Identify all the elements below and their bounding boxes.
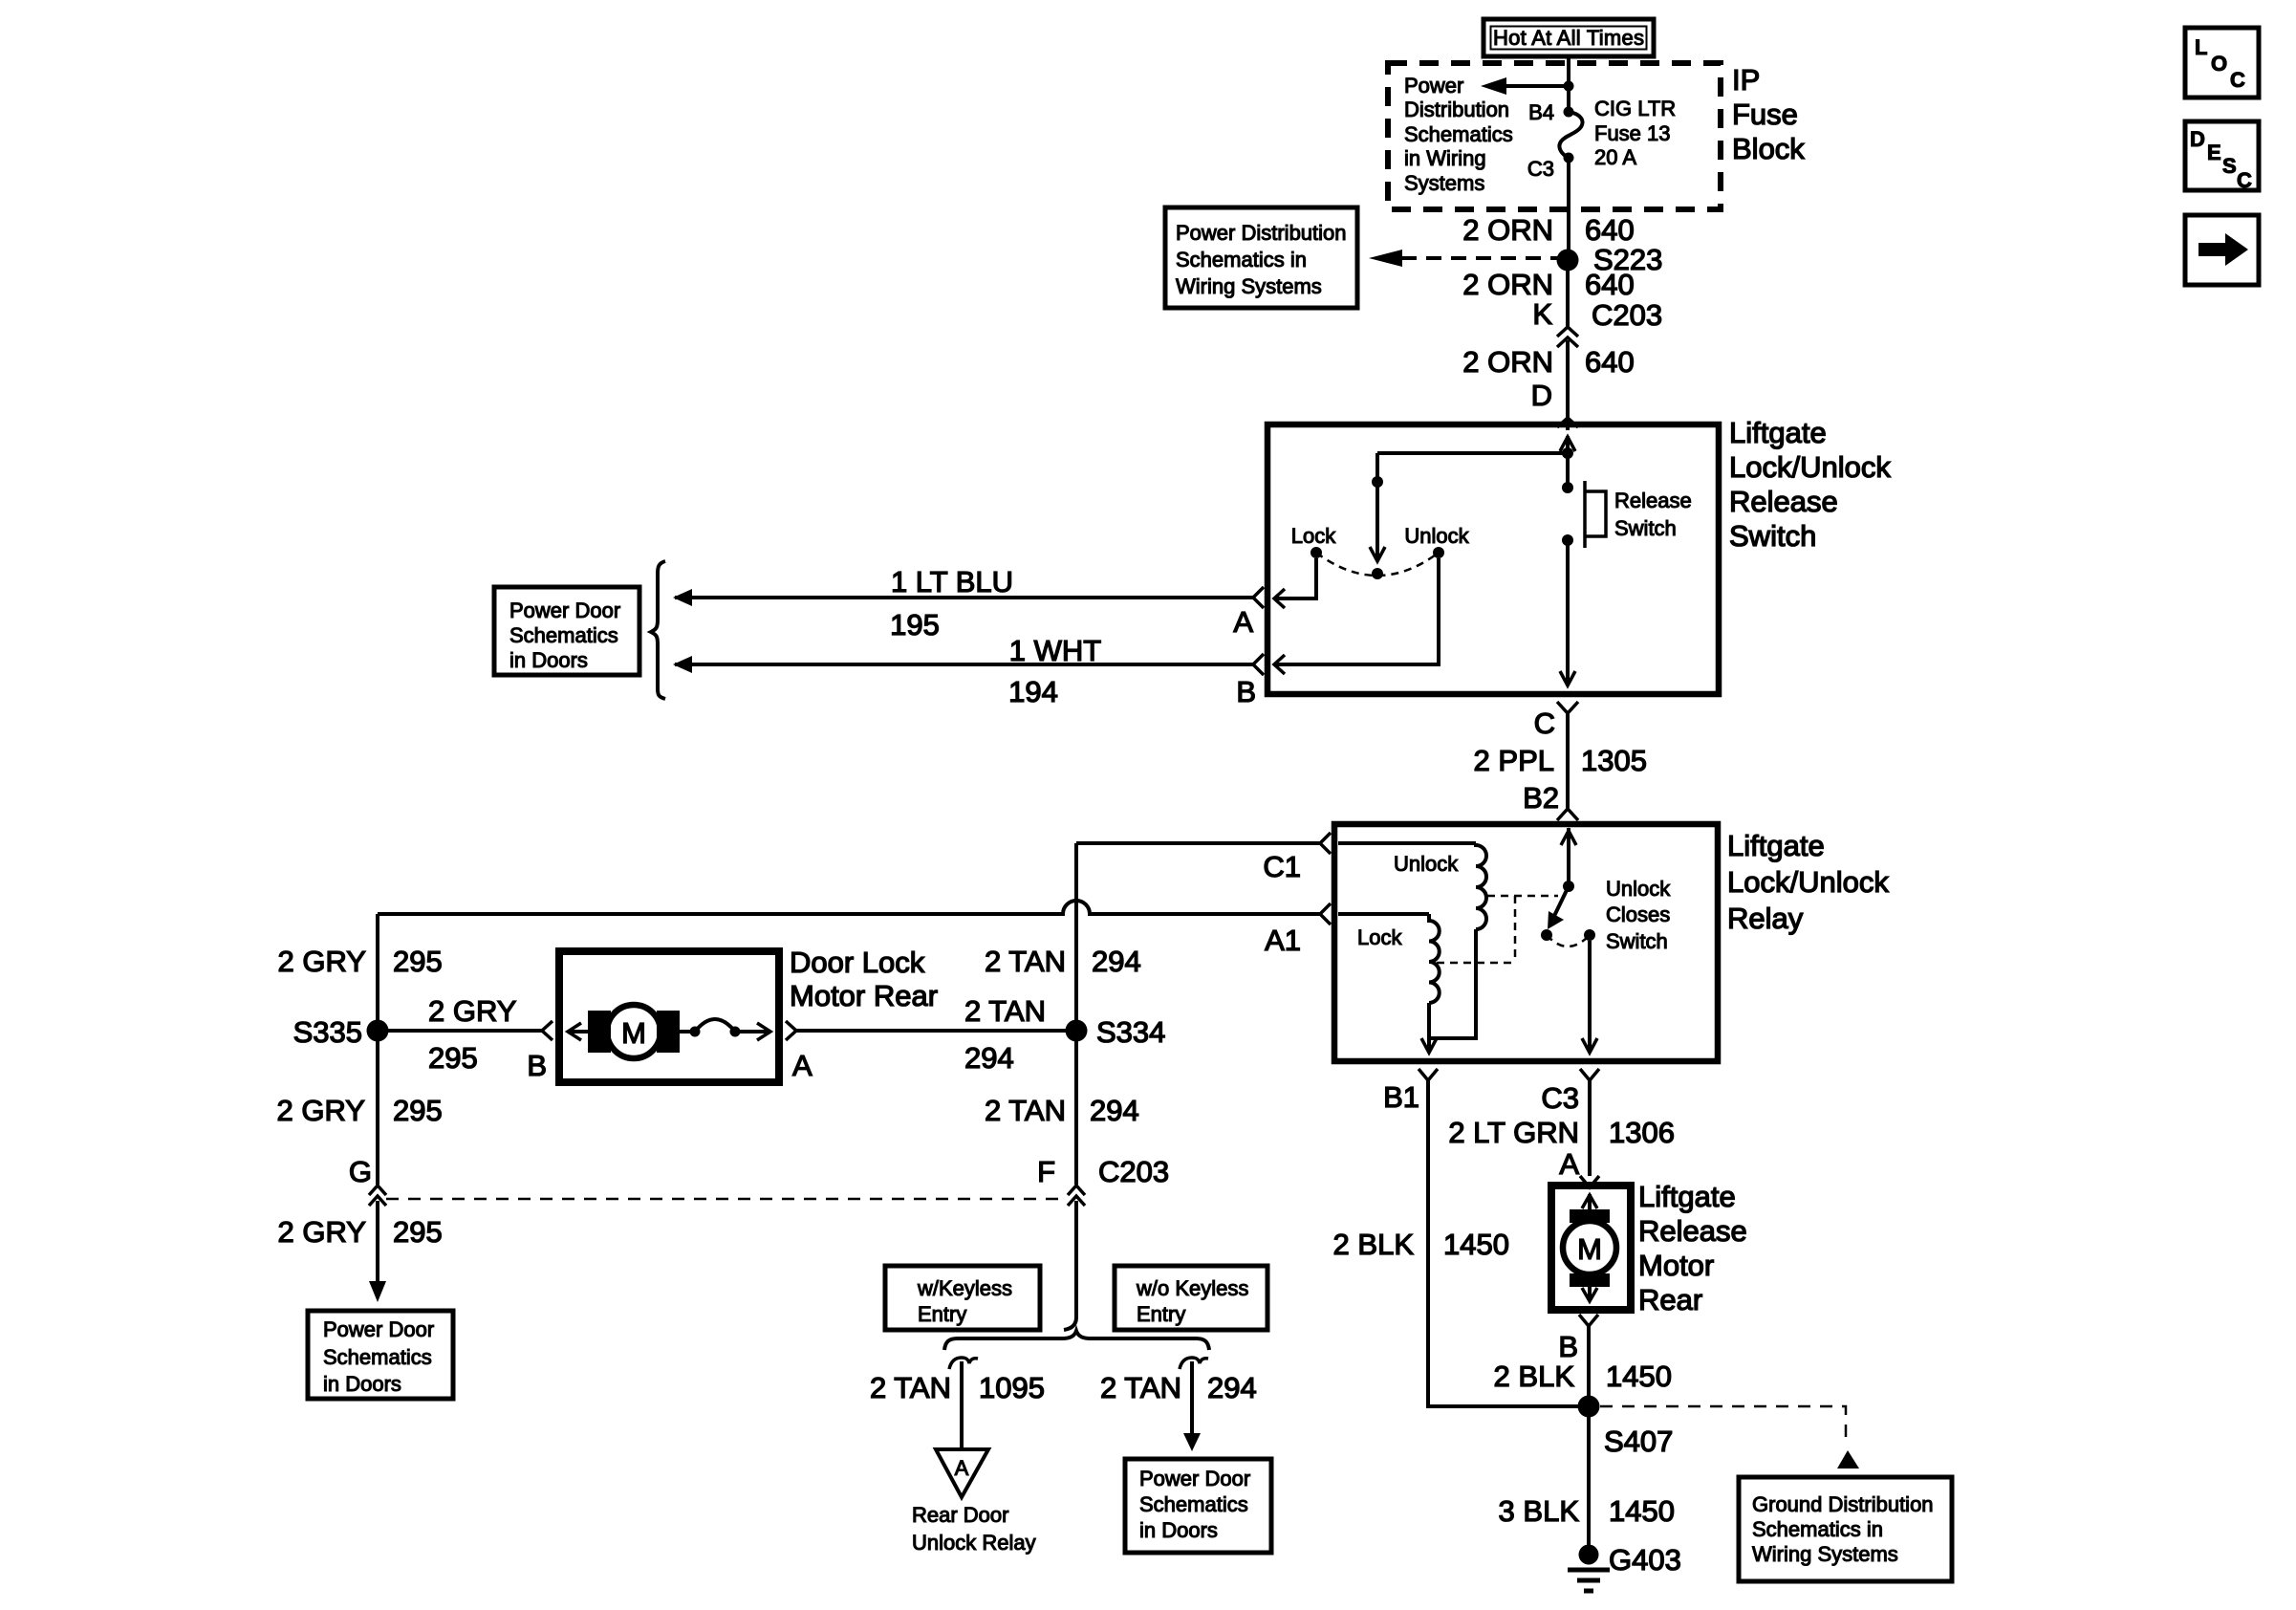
wire label 2 GRY 295 below G: [278, 1215, 443, 1249]
wire label 2 TAN 294 above S334: [985, 945, 1141, 978]
wire feed to lock/unlock common: [1377, 451, 1568, 455]
squiggle left option branch: [949, 1358, 978, 1369]
svg-text:Schematics: Schematics: [1139, 1492, 1248, 1516]
svg-text:640: 640: [1585, 213, 1635, 247]
dashed mechanical linkage: [1437, 896, 1558, 963]
nav icon arrow: [2185, 215, 2259, 285]
wire S334 riser: [1074, 843, 1078, 1185]
svg-text:G: G: [349, 1155, 372, 1188]
node common terminal: [1372, 453, 1383, 488]
wire label 3 BLK 1450: [1499, 1494, 1675, 1528]
svg-text:Liftgate: Liftgate: [1727, 829, 1825, 862]
svg-text:Unlock: Unlock: [1606, 877, 1671, 901]
svg-text:Fuse 13: Fuse 13: [1594, 121, 1671, 145]
svg-text:2 TAN: 2 TAN: [1100, 1371, 1181, 1404]
wire 2 PPL 1305 switch to relay: [1566, 713, 1570, 809]
reference box Power Door Schematics in Doors lower left: [308, 1311, 453, 1399]
svg-text:2 TAN: 2 TAN: [985, 1094, 1066, 1127]
node lock contact: [1310, 547, 1322, 558]
label Rear Door Unlock Relay: [912, 1503, 1036, 1555]
svg-text:C203: C203: [1592, 298, 1662, 332]
svg-text:194: 194: [1008, 675, 1058, 708]
svg-text:Power Distribution: Power Distribution: [1176, 221, 1347, 245]
svg-text:Entry: Entry: [1137, 1302, 1185, 1326]
connector chevron pin B: [1253, 654, 1264, 675]
svg-text:C203: C203: [1098, 1155, 1169, 1188]
node release upper contact: [1562, 482, 1573, 493]
svg-text:S334: S334: [1096, 1015, 1165, 1049]
wire A1 branch with hop over S334 riser: [378, 901, 1320, 914]
connector chevron pin C: [1557, 702, 1578, 713]
svg-text:Schematics: Schematics: [1404, 122, 1513, 146]
svg-text:D: D: [1531, 379, 1552, 412]
reference box Power Door Schematics in Doors lower right: [1125, 1459, 1271, 1553]
motor M door lock rear: [568, 1005, 770, 1058]
svg-text:Motor: Motor: [1638, 1249, 1714, 1282]
connector chevron pin B1: [1419, 1069, 1438, 1080]
svg-text:195: 195: [890, 608, 940, 642]
label Liftgate Lock/Unlock Release Switch: [1729, 416, 1891, 553]
wire S335 to door lock motor pin B: [378, 1029, 542, 1033]
connector chevron pin A: [1253, 587, 1264, 608]
svg-text:Hot At All Times: Hot At All Times: [1493, 26, 1644, 50]
connector chevron motor pin B: [1579, 1315, 1598, 1326]
svg-text:in Doors: in Doors: [509, 648, 588, 672]
svg-text:2 TAN: 2 TAN: [964, 994, 1046, 1028]
connector chevron motor pin A: [786, 1021, 796, 1040]
node B4 terminal: [1564, 107, 1574, 118]
wire dashed S407 to ground distribution: [1600, 1406, 1859, 1469]
svg-text:Power Door: Power Door: [1139, 1467, 1250, 1490]
option box w/Keyless Entry: [885, 1266, 1040, 1330]
node relay contact right: [1584, 929, 1595, 941]
svg-text:Distribution: Distribution: [1404, 98, 1509, 121]
wire label 2 GRY 295 horizontal: [428, 994, 516, 1075]
svg-text:B2: B2: [1523, 781, 1559, 815]
svg-text:A1: A1: [1265, 924, 1301, 957]
svg-text:Release: Release: [1614, 489, 1692, 512]
svg-text:1450: 1450: [1606, 1360, 1672, 1393]
svg-text:Lock: Lock: [1357, 925, 1402, 949]
svg-text:Switch: Switch: [1729, 519, 1816, 553]
svg-text:295: 295: [428, 1041, 478, 1075]
svg-text:G403: G403: [1609, 1543, 1681, 1577]
svg-text:1450: 1450: [1609, 1494, 1675, 1528]
svg-text:IP: IP: [1732, 63, 1760, 97]
svg-text:B1: B1: [1383, 1080, 1419, 1114]
svg-text:D: D: [2190, 127, 2205, 151]
svg-text:640: 640: [1585, 268, 1635, 301]
brace grouping door wires: [651, 561, 665, 699]
svg-text:Relay: Relay: [1727, 902, 1804, 935]
svg-text:E: E: [2207, 141, 2221, 164]
svg-text:295: 295: [393, 945, 443, 978]
node junction to power distribution arrow: [1564, 81, 1574, 92]
svg-text:Block: Block: [1732, 132, 1805, 165]
connector chevron motor pin B: [542, 1021, 552, 1040]
wire arrow to power distribution schematics: [1481, 77, 1569, 95]
reference box Ground Distribution Schematics in Wiring Systems: [1739, 1477, 1952, 1581]
value label CIG LTR Fuse 13 20 A: [1594, 97, 1676, 169]
svg-text:295: 295: [393, 1094, 443, 1127]
wire lock contact to pin A: [1274, 558, 1316, 608]
svg-text:A: A: [1559, 1147, 1579, 1181]
wire 2 TAN 1095 to rear door unlock relay: [960, 1361, 964, 1449]
connector chevron pin C1: [1320, 833, 1331, 854]
svg-text:Release: Release: [1638, 1214, 1747, 1248]
wire S335 riser: [376, 914, 379, 1185]
wire C1 branch from S334 riser: [1076, 841, 1320, 845]
svg-text:2 ORN: 2 ORN: [1462, 268, 1553, 301]
svg-text:Lock: Lock: [1291, 524, 1336, 548]
svg-text:Unlock Relay: Unlock Relay: [912, 1531, 1036, 1555]
svg-text:Schematics in: Schematics in: [1752, 1517, 1883, 1541]
svg-text:Lock/Unlock: Lock/Unlock: [1729, 450, 1891, 484]
wire lock coil feed from A1: [1338, 912, 1429, 916]
node splice S223: [1557, 250, 1579, 272]
wire label 2 ORN 640: [1462, 268, 1634, 301]
svg-text:in Wiring: in Wiring: [1404, 146, 1486, 170]
svg-text:S407: S407: [1604, 1425, 1673, 1458]
wire 2 BLK 1450 from B1: [1428, 1080, 1580, 1406]
svg-text:1306: 1306: [1609, 1116, 1675, 1149]
svg-text:295: 295: [393, 1215, 443, 1249]
svg-text:B: B: [1236, 675, 1256, 708]
motor M release rear: [1563, 1194, 1616, 1301]
label Release Switch: [1614, 489, 1692, 540]
node feed junction: [1562, 447, 1573, 459]
svg-text:C1: C1: [1263, 850, 1301, 883]
wire F down to options brace: [1064, 1201, 1076, 1330]
node C3 terminal: [1564, 153, 1574, 163]
svg-text:B: B: [527, 1049, 547, 1082]
svg-text:2 LT GRN: 2 LT GRN: [1448, 1116, 1579, 1149]
wire S223 to C203: [1566, 271, 1570, 327]
wire 2 LT GRN 1306 from C3: [1588, 1080, 1592, 1176]
svg-text:K: K: [1532, 297, 1552, 331]
svg-text:2 BLK: 2 BLK: [1494, 1360, 1575, 1393]
wire coil return arrow to B1: [1421, 1038, 1437, 1053]
svg-text:2 GRY: 2 GRY: [277, 1094, 365, 1127]
symbol triangle A rear door unlock relay: [936, 1449, 988, 1497]
svg-text:1 LT BLU: 1 LT BLU: [891, 565, 1013, 598]
squiggle right option branch: [1180, 1358, 1208, 1369]
svg-text:Unlock: Unlock: [1394, 852, 1459, 876]
svg-text:w/o Keyless: w/o Keyless: [1136, 1276, 1248, 1300]
label Door Lock Motor Rear: [790, 946, 938, 1012]
svg-text:Motor Rear: Motor Rear: [790, 979, 938, 1012]
svg-text:2 GRY: 2 GRY: [278, 1215, 366, 1249]
svg-text:3 BLK: 3 BLK: [1499, 1494, 1580, 1528]
svg-text:S: S: [2222, 154, 2237, 178]
svg-text:Power Door: Power Door: [509, 598, 620, 622]
svg-text:Entry: Entry: [918, 1302, 966, 1326]
node splice S335: [367, 1020, 389, 1042]
wire unlock contact to pin B: [1274, 558, 1439, 674]
svg-text:Liftgate: Liftgate: [1729, 416, 1827, 449]
wire release lower to pin C with down arrow: [1560, 540, 1575, 685]
wire label 2 TAN 294 below S334: [985, 1094, 1139, 1127]
svg-text:C3: C3: [1527, 157, 1554, 181]
svg-text:Rear: Rear: [1638, 1283, 1702, 1316]
node unlock contact: [1433, 547, 1444, 558]
svg-text:Systems: Systems: [1404, 171, 1484, 195]
component box Liftgate Release Motor Rear: [1551, 1186, 1631, 1310]
wire G to power door schematics arrow: [369, 1201, 386, 1302]
wire coil commons joined: [1429, 929, 1476, 1052]
svg-text:Fuse: Fuse: [1732, 98, 1798, 131]
wire switch feed from D with up arrow: [1560, 436, 1575, 453]
svg-text:Liftgate: Liftgate: [1638, 1180, 1736, 1213]
svg-text:w/Keyless: w/Keyless: [917, 1276, 1012, 1300]
release switch pushbutton: [1585, 481, 1606, 548]
wire common arm arrow down: [1370, 482, 1385, 561]
wire relay contact to C3 with down arrow: [1582, 941, 1597, 1053]
label IP Fuse Block: [1732, 63, 1805, 165]
svg-text:Ground Distribution: Ground Distribution: [1752, 1492, 1934, 1516]
node relay contact left: [1541, 929, 1552, 941]
svg-text:Unlock: Unlock: [1404, 524, 1469, 548]
svg-text:Closes: Closes: [1606, 903, 1670, 926]
wire 1 WHT 194 to doors: [673, 656, 1253, 673]
svg-text:C: C: [2230, 68, 2245, 92]
svg-text:C: C: [1534, 707, 1555, 740]
label Unlock Closes Switch: [1606, 877, 1671, 953]
wire unlock coil feed from C1: [1338, 841, 1476, 845]
svg-text:2 BLK: 2 BLK: [1333, 1228, 1415, 1261]
svg-text:O: O: [2211, 52, 2227, 76]
svg-text:Schematics in: Schematics in: [1176, 248, 1307, 272]
svg-text:Lock/Unlock: Lock/Unlock: [1727, 865, 1889, 899]
wire label 2 TAN 294 horizontal: [964, 994, 1046, 1075]
svg-text:B4: B4: [1528, 100, 1554, 124]
IP fuse block dashed box: [1388, 63, 1721, 209]
connector chevron pin B2: [1557, 809, 1578, 820]
svg-text:2 TAN: 2 TAN: [985, 945, 1066, 978]
label Liftgate Release Motor Rear: [1638, 1180, 1747, 1316]
coil unlock winding: [1476, 843, 1486, 929]
svg-text:A: A: [1233, 605, 1253, 639]
wire label 2 GRY 295 above S335: [278, 945, 443, 978]
svg-text:294: 294: [964, 1041, 1014, 1075]
svg-text:2 GRY: 2 GRY: [428, 994, 516, 1028]
svg-text:Schematics: Schematics: [509, 623, 618, 647]
svg-text:Power Door: Power Door: [323, 1317, 434, 1341]
wire label 2 ORN 640: [1462, 213, 1634, 247]
node splice S334: [1066, 1020, 1088, 1042]
wire dashed connector C203 G to F: [386, 1198, 1065, 1201]
wire from Hot At All Times to fuse: [1567, 54, 1570, 112]
wire dashed branch to power distribution schematics: [1369, 250, 1566, 267]
connector chevron pin C3: [1580, 1069, 1599, 1080]
svg-text:2 GRY: 2 GRY: [278, 945, 366, 978]
svg-text:1095: 1095: [979, 1371, 1045, 1404]
wire fuse output to S223: [1567, 158, 1570, 260]
svg-text:1305: 1305: [1581, 744, 1647, 777]
ground G403: [1568, 1545, 1610, 1592]
svg-text:C: C: [2237, 168, 2252, 192]
wire 1 LT BLU 195 to doors: [673, 589, 1253, 606]
option box w/o Keyless Entry: [1115, 1266, 1267, 1330]
svg-text:Switch: Switch: [1606, 929, 1668, 953]
fuse F13 CIG LTR 20A: [1559, 112, 1582, 158]
svg-text:A: A: [955, 1456, 969, 1480]
coil lock winding: [1429, 914, 1440, 1003]
svg-text:Switch: Switch: [1614, 516, 1677, 540]
svg-text:640: 640: [1585, 345, 1635, 379]
connector C203 chevrons at F: [1068, 1186, 1085, 1206]
node release lower contact: [1562, 534, 1573, 546]
connector chevron at D: [1557, 418, 1578, 427]
svg-text:L: L: [2195, 35, 2207, 59]
svg-text:Door Lock: Door Lock: [790, 946, 925, 979]
node relay switch pivot: [1563, 881, 1574, 892]
svg-text:Power: Power: [1404, 74, 1463, 98]
wire C203 to switch pin D 2 ORN 640: [1566, 340, 1570, 430]
connector chevron pin A1: [1320, 903, 1331, 925]
svg-text:in Doors: in Doors: [1139, 1518, 1218, 1542]
svg-text:20 A: 20 A: [1594, 145, 1636, 169]
reference box Power Door Schematics in Doors: [494, 587, 639, 675]
svg-text:Wiring Systems: Wiring Systems: [1176, 274, 1322, 298]
wire release switch upper leg: [1566, 453, 1570, 488]
svg-text:1 WHT: 1 WHT: [1009, 634, 1102, 667]
dashed travel arc lock-unlock: [1316, 553, 1439, 576]
nav icon DESC: [2185, 121, 2259, 192]
component box Liftgate Lock/Unlock Release Switch: [1267, 424, 1719, 694]
svg-text:M: M: [621, 1016, 646, 1050]
relay switch arm with arrowhead: [1548, 886, 1569, 929]
wire motor pin A to S334: [796, 1029, 1076, 1033]
nav icon LOC: [2185, 28, 2259, 98]
svg-text:S335: S335: [293, 1015, 362, 1049]
wire relay switch feed from B2 with up arrow: [1561, 828, 1576, 886]
wire 2 BLK 1450 motor to S407: [1587, 1326, 1591, 1549]
svg-text:2 PPL: 2 PPL: [1474, 744, 1554, 777]
svg-text:Rear Door: Rear Door: [912, 1503, 1008, 1527]
wire label 1 WHT 194: [1008, 634, 1101, 708]
component box Liftgate Lock/Unlock Relay: [1334, 824, 1718, 1061]
svg-text:Wiring Systems: Wiring Systems: [1752, 1542, 1898, 1566]
svg-text:M: M: [1577, 1232, 1602, 1266]
svg-text:2 TAN: 2 TAN: [870, 1371, 951, 1404]
label Liftgate Lock/Unlock Relay: [1727, 829, 1889, 935]
wire label 2 GRY 295 below S335: [277, 1094, 443, 1127]
svg-text:A: A: [792, 1049, 812, 1082]
connector C203 chevrons at G: [369, 1186, 386, 1206]
brace option split: [944, 1331, 1209, 1350]
svg-text:294: 294: [1090, 1094, 1139, 1127]
component box Door Lock Motor Rear: [559, 951, 779, 1082]
note Power Distribution Schematics in Wiring Systems: [1404, 74, 1513, 195]
svg-text:in Doors: in Doors: [323, 1372, 401, 1396]
svg-text:294: 294: [1207, 1371, 1257, 1404]
node splice S407: [1578, 1396, 1600, 1418]
svg-text:294: 294: [1092, 945, 1141, 978]
dashed travel arc relay contacts: [1547, 935, 1590, 946]
svg-text:Schematics: Schematics: [323, 1345, 432, 1369]
connector chevron motor pin A: [1580, 1176, 1599, 1187]
connector C203 double chevron: [1557, 327, 1578, 347]
wire 2 TAN 294 to power door schematics: [1183, 1361, 1201, 1451]
flag box Hot At All Times: [1484, 19, 1654, 56]
node wiper rest: [1372, 568, 1383, 579]
reference box Power Distribution Schematics in Wiring Systems: [1165, 207, 1357, 308]
svg-text:1450: 1450: [1443, 1228, 1509, 1261]
svg-text:2 ORN: 2 ORN: [1462, 213, 1553, 247]
svg-text:Release: Release: [1729, 485, 1838, 518]
svg-text:CIG LTR: CIG LTR: [1594, 97, 1676, 120]
svg-text:F: F: [1037, 1155, 1055, 1188]
svg-text:C3: C3: [1541, 1081, 1579, 1115]
wire label 1 LT BLU 195: [890, 565, 1013, 642]
svg-text:2 ORN: 2 ORN: [1462, 345, 1553, 379]
svg-text:B: B: [1558, 1330, 1578, 1363]
